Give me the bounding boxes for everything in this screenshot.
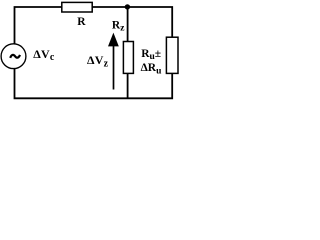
svg-text:R: R bbox=[77, 16, 86, 28]
